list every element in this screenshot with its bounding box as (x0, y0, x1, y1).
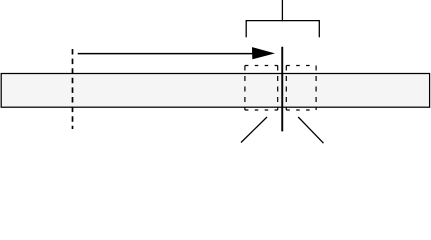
right dashed box (286, 66, 316, 111)
bracket stem (281, 0, 283, 21)
bracket left tick (245, 21, 247, 38)
bracket right tick (318, 21, 320, 38)
dashed reference line (72, 49, 74, 129)
right diagonal (298, 117, 323, 143)
arrow head (252, 47, 275, 59)
left diagonal (241, 117, 267, 143)
sequence bar (1, 74, 429, 108)
arrow shaft (78, 53, 253, 55)
bracket bar (246, 20, 320, 22)
cut-site line (281, 47, 283, 132)
left dashed box (245, 66, 278, 111)
